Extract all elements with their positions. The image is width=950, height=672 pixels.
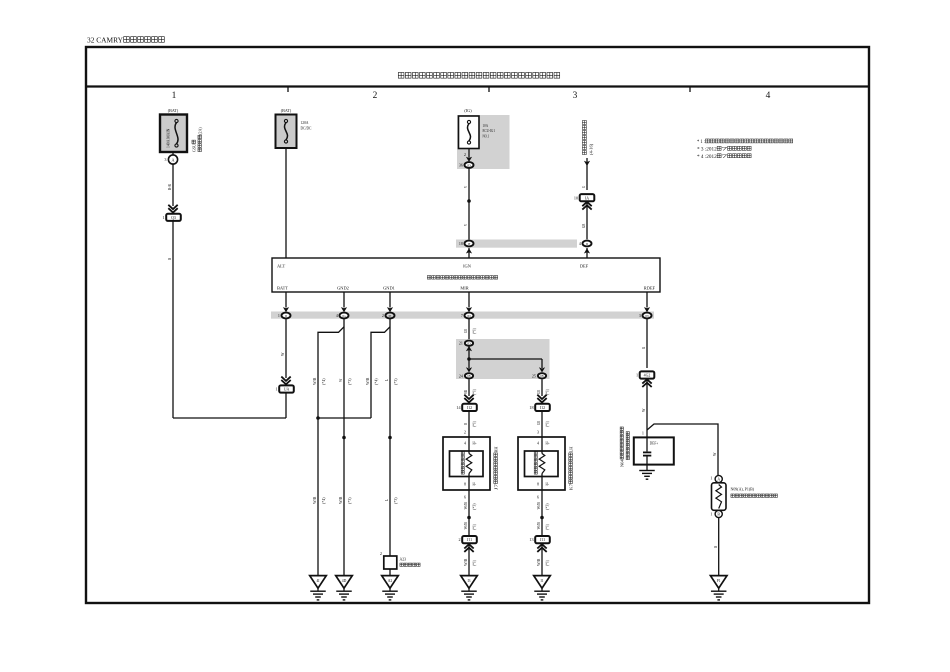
svg-text:(*1): (*1) [472, 388, 477, 395]
ground P1 [710, 576, 727, 589]
svg-text:1: 1 [710, 512, 712, 517]
connector I12 right [535, 404, 550, 411]
column grid ticks [287, 87, 289, 93]
svg-text:(2A): (2A) [198, 127, 203, 135]
svg-text:3: 3 [537, 430, 539, 435]
svg-text:(*4): (*4) [321, 378, 326, 385]
svg-text:(*1): (*1) [472, 559, 477, 566]
fuse 140A MAIN box [160, 115, 187, 153]
connector I11 right [535, 536, 550, 543]
svg-text:32 CAMRY: 32 CAMRY [87, 36, 123, 44]
svg-text:4: 4 [537, 440, 539, 445]
svg-text:(*4): (*4) [321, 497, 326, 504]
svg-text:G: G [581, 186, 586, 188]
gray block mirror junction [456, 339, 550, 379]
svg-text:IB: IB [540, 374, 543, 378]
wire into 1 II oval [285, 292, 287, 308]
svg-text:(IG): (IG) [464, 108, 472, 113]
connector 4 IG oval [340, 313, 349, 319]
svg-text:(*1): (*1) [472, 420, 477, 427]
svg-text:IGN: IGN [463, 264, 472, 269]
svg-text:21: 21 [459, 341, 463, 346]
connector UA [279, 385, 294, 392]
splice junction mirror feed [467, 357, 471, 361]
svg-text:(*1): (*1) [545, 523, 550, 530]
svg-text:W/B: W/B [312, 496, 317, 504]
wire L (*3) from IE oval [389, 319, 391, 556]
wire R (*1) mirror [468, 411, 470, 437]
svg-text:1: 1 [636, 373, 638, 378]
svg-text:4G2: 4G2 [644, 374, 651, 378]
svg-text:W/B: W/B [463, 558, 468, 566]
wire R (*1) mirror right [541, 411, 543, 437]
wire column2 to ALT [285, 148, 287, 258]
page border frame [86, 47, 869, 603]
svg-text:K7: K7 [569, 483, 574, 490]
connector 1 II oval [282, 313, 291, 319]
svg-text:RH: RH [494, 446, 499, 453]
svg-text:W/B: W/B [365, 377, 370, 385]
svg-text:W: W [280, 353, 285, 356]
svg-text:1: 1 [276, 387, 278, 392]
svg-text:W/B: W/B [536, 502, 541, 510]
svg-text:8: 8 [464, 482, 466, 487]
wire W/B (*4) from IE oval [371, 327, 390, 418]
svg-text:A: A [717, 478, 720, 482]
svg-text:1: 1 [163, 215, 165, 220]
svg-text:W/B: W/B [463, 522, 468, 530]
connector Q3 [166, 214, 181, 221]
svg-text:1: 1 [710, 476, 712, 481]
svg-text:(*3): (*3) [347, 378, 352, 385]
connector Q3 chevron [168, 208, 177, 212]
wire W (*3) from IG oval [343, 319, 345, 576]
svg-text:II: II [586, 242, 588, 246]
svg-text:NO.1: NO.1 [483, 133, 490, 138]
svg-text:13: 13 [529, 537, 533, 542]
svg-text:V: V [463, 186, 468, 188]
svg-text:IF: IF [468, 242, 471, 246]
svg-text:W/B: W/B [536, 522, 541, 530]
fuse 10A ECU-IG1 box [459, 116, 480, 149]
arrow into IF [468, 248, 470, 258]
production notes [697, 139, 793, 145]
junction block band lower [271, 312, 654, 319]
wire W BATT net [285, 319, 287, 378]
svg-text:(BAT): (BAT) [281, 108, 292, 113]
svg-text:J11: J11 [467, 538, 472, 542]
svg-text:2: 2 [373, 91, 378, 101]
svg-text:8: 8 [537, 482, 539, 487]
svg-text:* 1 :: * 1 : [697, 140, 705, 145]
svg-text:GR: GR [536, 390, 541, 394]
fuse 120A DC/DC label (BAT) [281, 108, 292, 113]
svg-text:W: W [712, 453, 717, 456]
svg-text:GR: GR [581, 223, 586, 228]
connector 25 IB oval [539, 367, 545, 372]
pin 2 of IG fuse [468, 149, 470, 158]
svg-text:LH: LH [569, 446, 574, 453]
svg-text:(4-16): (4-16) [589, 143, 594, 155]
fuse 120A DC/DC box [276, 115, 297, 149]
svg-text:1: 1 [278, 313, 280, 318]
svg-text:6: 6 [464, 495, 466, 500]
svg-text:I1: I1 [540, 579, 543, 583]
gray backdrop IG fuse block [457, 115, 510, 169]
connector 7 ID oval [465, 313, 474, 319]
svg-text:(*1): (*1) [472, 523, 477, 530]
wire SB (*1) mirror [468, 379, 470, 396]
page header title [87, 36, 164, 44]
svg-text:18: 18 [529, 405, 533, 410]
svg-text:W: W [641, 409, 646, 412]
svg-text:(*3): (*3) [347, 497, 352, 504]
svg-text:V: V [463, 224, 468, 226]
svg-text:J11: J11 [540, 538, 545, 542]
svg-text:H-: H- [546, 482, 550, 487]
bolt-fastening annotation [192, 140, 197, 152]
svg-text:4: 4 [336, 313, 338, 318]
connector 24 IB oval [466, 367, 472, 372]
svg-text:(*4): (*4) [374, 378, 379, 385]
svg-text:GND1: GND1 [383, 286, 395, 291]
svg-text:2: 2 [464, 430, 466, 435]
svg-text:GR: GR [463, 329, 468, 333]
svg-text:IB: IB [467, 374, 470, 378]
svg-text:H-: H- [473, 482, 477, 487]
ground I1 [534, 576, 551, 589]
svg-text:GND2: GND2 [337, 286, 349, 291]
mirror defogger resistor right [541, 437, 543, 454]
svg-text:7: 7 [461, 313, 463, 318]
svg-text:R: R [463, 423, 468, 425]
splice dot column3 [467, 199, 471, 203]
svg-text:10: 10 [574, 195, 578, 200]
svg-text:RDEF: RDEF [644, 286, 656, 291]
svg-text:BATT: BATT [277, 286, 288, 291]
svg-text:4: 4 [579, 241, 581, 246]
svg-text:4: 4 [766, 91, 771, 101]
wire into 3 IN oval [646, 292, 648, 308]
svg-text:SB: SB [463, 390, 468, 394]
mirror assembly name right [569, 446, 574, 490]
wire W/B mirror ground right [541, 490, 543, 536]
wire into 4 IG oval [343, 292, 345, 308]
junction block band upper [456, 240, 577, 248]
svg-text:DEF+: DEF+ [650, 441, 659, 446]
capacitor symbol [646, 437, 648, 451]
wire B-R column1 [172, 164, 174, 206]
svg-text:GSU: GSU [192, 143, 197, 152]
svg-text:(*1): (*1) [545, 388, 550, 395]
svg-text:Q3: Q3 [171, 216, 176, 220]
wire into 2 IE oval [389, 292, 391, 308]
fuse 140A MAIN label (BAT) [168, 108, 179, 113]
wire V column3 [468, 168, 470, 240]
svg-text:140A MAIN: 140A MAIN [166, 128, 171, 148]
svg-text:I3: I3 [467, 579, 470, 583]
svg-text:18: 18 [459, 241, 463, 246]
svg-text:IE: IE [388, 314, 391, 318]
svg-text:* 3 :2012: * 3 :2012 [697, 147, 717, 152]
wire GR (*1) from ID oval [468, 319, 470, 340]
wire to ground right [541, 544, 543, 576]
diagram title [398, 72, 559, 78]
svg-text:GR: GR [536, 421, 541, 425]
svg-text:II: II [285, 314, 287, 318]
ground bars radio [639, 470, 655, 472]
wire W/B mirror ground [468, 490, 470, 536]
svg-text:(*1): (*1) [472, 327, 477, 334]
svg-text:3: 3 [573, 91, 578, 101]
svg-text:(BAT): (BAT) [168, 108, 179, 113]
outer mirror assembly box [443, 437, 490, 490]
svg-text:W/B: W/B [463, 502, 468, 510]
svg-text:I12: I12 [540, 406, 545, 410]
A/C amplifier annotation [582, 121, 586, 155]
svg-text:B: B [717, 513, 720, 517]
svg-text:B-R: B-R [167, 184, 172, 190]
connector 18 IF oval [465, 241, 474, 247]
svg-text:W/B: W/B [536, 558, 541, 566]
branch to defogger [647, 424, 718, 475]
svg-text:4D: 4D [342, 579, 347, 583]
connector I12 [462, 404, 477, 411]
wire W/B (*4) from IG oval [318, 327, 344, 576]
svg-text:DC/DC: DC/DC [301, 126, 312, 131]
wire from A/C amplifier [586, 158, 588, 190]
wire joining W/B wires [318, 417, 371, 419]
svg-text:A2: A2 [388, 579, 393, 583]
svg-text:R: R [641, 347, 646, 349]
svg-text:N04: N04 [620, 459, 625, 467]
svg-text:(*1): (*1) [545, 420, 550, 427]
wire to ground [468, 544, 470, 576]
wire into 7 ID oval [468, 292, 470, 308]
connector I11 [462, 536, 477, 543]
wire horizontal battery feed [173, 417, 286, 419]
mirror defogger resistor [468, 437, 470, 454]
svg-text:W/B: W/B [338, 496, 343, 504]
svg-text:36: 36 [459, 163, 463, 168]
connector 2 IE oval [386, 313, 395, 319]
wire GR [586, 202, 588, 240]
svg-text:UA: UA [284, 388, 290, 392]
svg-text:2: 2 [459, 537, 461, 542]
svg-text:I12: I12 [467, 406, 472, 410]
svg-text:* 4 :2012: * 4 :2012 [697, 155, 717, 160]
connector IA [580, 194, 595, 201]
svg-text:A23: A23 [400, 557, 407, 562]
fuse 10A ECU-IG1 label [464, 108, 472, 113]
svg-text:P1: P1 [717, 579, 721, 583]
svg-text:1: 1 [172, 91, 177, 101]
svg-text:H+: H+ [546, 440, 551, 445]
svg-text:(*1): (*1) [545, 559, 550, 566]
integration relay (engine room junction box) [272, 258, 660, 292]
wire B defogger ground [718, 518, 720, 576]
ground A2 [382, 576, 399, 589]
ground 4D [336, 576, 353, 589]
svg-text:(*3): (*3) [393, 378, 398, 385]
ground I3 [461, 576, 478, 589]
connector 3 IN oval [643, 313, 652, 319]
svg-text:6: 6 [537, 495, 539, 500]
svg-text:120A: 120A [301, 120, 309, 125]
svg-text:2: 2 [382, 313, 384, 318]
mirror assembly name [494, 446, 499, 490]
wire W RDEF [646, 379, 648, 437]
svg-text:3: 3 [639, 313, 641, 318]
svg-text:DEF: DEF [580, 264, 589, 269]
svg-text:B: B [167, 258, 172, 260]
svg-text:(*3): (*3) [393, 497, 398, 504]
svg-text:24: 24 [459, 373, 463, 378]
splice dot GND1 [388, 436, 392, 440]
radio assembly name [620, 427, 625, 467]
svg-text:ALT: ALT [277, 264, 285, 269]
node A circle [172, 152, 174, 155]
svg-text:2: 2 [380, 551, 382, 556]
wire GR (*1) mirror right [541, 379, 543, 396]
svg-text:1: 1 [642, 431, 644, 436]
connector 21 ID oval [465, 341, 473, 346]
ground connector box [384, 556, 397, 569]
svg-text:IA: IA [585, 196, 589, 200]
wire R RDEF [646, 319, 648, 368]
wire B column1 down to junction [172, 221, 174, 418]
connector 36 ID oval [465, 162, 474, 168]
svg-text:25: 25 [532, 373, 536, 378]
connector 4 II oval top [583, 241, 592, 247]
svg-text:B: B [713, 546, 718, 548]
connector 4G2 [640, 371, 655, 378]
outer mirror assembly box right [518, 437, 565, 490]
svg-text:4: 4 [464, 440, 466, 445]
svg-text:(*3): (*3) [545, 503, 550, 510]
splice dot GND2 [342, 436, 346, 440]
svg-text:2: 2 [464, 152, 466, 157]
svg-text:MIR: MIR [460, 286, 468, 291]
svg-text:W/B: W/B [312, 377, 317, 385]
svg-text:(*3): (*3) [472, 503, 477, 510]
svg-text:H+: H+ [473, 440, 478, 445]
svg-text:W: W [338, 379, 343, 382]
ground 4I [310, 576, 327, 589]
svg-text:3: 3 [164, 157, 166, 162]
